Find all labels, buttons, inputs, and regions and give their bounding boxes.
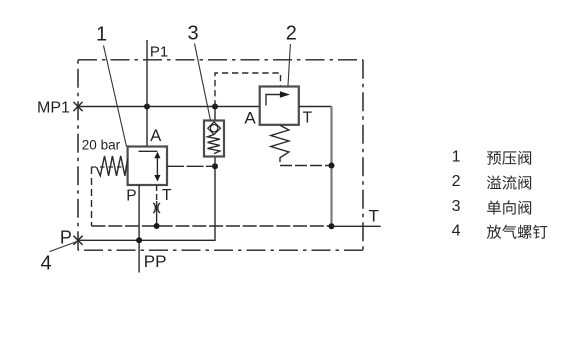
valve 1 (pre-load valve) body <box>128 147 167 186</box>
pilot dashed vertical left <box>91 167 93 226</box>
enclosure boundary (dash-dot) <box>78 59 363 61</box>
svg-text:A: A <box>244 108 256 127</box>
svg-text:1: 1 <box>96 24 107 46</box>
node check valve bottom junction <box>212 163 218 169</box>
pilot dashed line through spring <box>92 166 128 168</box>
node tank line junction <box>329 223 335 229</box>
svg-text:4: 4 <box>452 222 461 239</box>
svg-text:20 bar: 20 bar <box>82 138 121 153</box>
spring valve 1 <box>97 156 128 176</box>
node PP junction <box>136 237 142 243</box>
svg-text:3: 3 <box>188 23 199 45</box>
port MP1 plug X <box>73 102 82 111</box>
valve 2 (relief valve) body <box>260 87 299 125</box>
svg-text:MP1: MP1 <box>37 100 70 117</box>
orifice )( symbol <box>153 203 160 212</box>
valve 1 internal symbol <box>139 150 158 152</box>
svg-text:T: T <box>162 187 172 204</box>
spring valve 2 <box>271 125 289 162</box>
check valve spring <box>208 134 220 153</box>
valve 2 internal arrow <box>266 95 281 106</box>
node P1 junction <box>144 104 150 110</box>
check valve diamond <box>208 122 221 135</box>
svg-text:2: 2 <box>286 23 297 45</box>
check valve 3 body <box>214 107 216 121</box>
drain dashed valve 2 spring to T line <box>280 165 332 167</box>
wire: T stub out of enclosure <box>332 225 381 227</box>
pilot dashed to valve 2 top <box>215 73 281 107</box>
drain dashed line (to tank line) <box>92 225 332 227</box>
wire: valve 2 T to tank drop <box>299 106 332 108</box>
valve 1 T drain dashed upper <box>156 185 158 201</box>
svg-text:P1: P1 <box>150 43 168 60</box>
svg-text:A: A <box>150 127 161 145</box>
svg-text:2: 2 <box>452 173 461 190</box>
port P plug X (bleed screw) <box>73 236 82 245</box>
wire: main line MP1 to valve 2 A <box>78 106 260 108</box>
svg-text:1: 1 <box>452 148 461 165</box>
svg-text:T: T <box>303 110 313 127</box>
svg-text:P: P <box>126 188 136 205</box>
svg-text:PP: PP <box>144 252 167 271</box>
svg-text:4: 4 <box>41 253 52 275</box>
node spring drain junction <box>329 163 335 169</box>
wire: P1 vertical line <box>146 40 148 147</box>
check valve ball <box>210 125 217 132</box>
wire: valve 1 P port down to bleed line (PP line) <box>138 185 140 273</box>
wire: bleed line <box>78 166 215 240</box>
svg-text:T: T <box>369 206 379 225</box>
valve 1 T drain lower segment <box>156 201 158 226</box>
node check valve top junction <box>212 104 218 110</box>
svg-text:3: 3 <box>452 198 461 215</box>
node orifice drain junction <box>154 223 160 229</box>
pilot dashed valve1 T to check valve line <box>167 165 215 167</box>
